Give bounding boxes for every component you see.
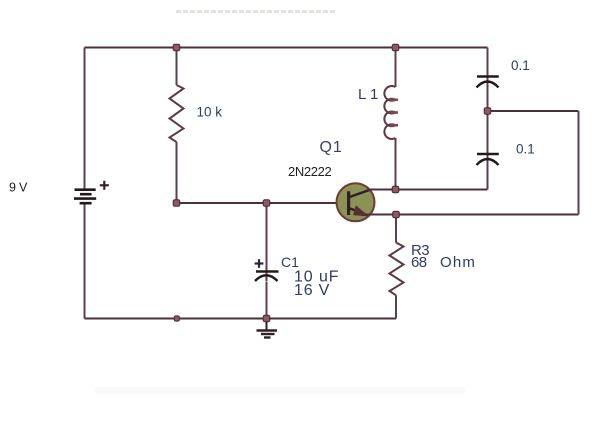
wire R3 top lead: [395, 215, 397, 243]
wire base rail: [177, 202, 349, 204]
junction emitter R3: [393, 211, 400, 218]
wire feedback top: [488, 110, 579, 112]
resistor R3: [390, 243, 404, 296]
junction base C1: [263, 200, 270, 207]
junction caps mid: [484, 108, 491, 115]
svg-text:0.1: 0.1: [511, 58, 530, 73]
inductor L1: [384, 86, 398, 139]
wire bottom rail: [85, 318, 397, 320]
battery V1 9V: [74, 190, 96, 204]
ground: [257, 319, 278, 338]
junction collector L1: [392, 186, 399, 193]
svg-text:Q1: Q1: [320, 139, 343, 156]
svg-text:68: 68: [411, 254, 427, 271]
wire collector rail: [367, 189, 488, 191]
junction bottom rail small: [174, 316, 179, 321]
junction top L1: [392, 44, 399, 51]
svg-text:L 1: L 1: [358, 86, 378, 103]
svg-text:Ohm: Ohm: [440, 254, 476, 271]
faint artifact band top: [176, 10, 336, 13]
capacitor C1 plus sign: [255, 259, 264, 268]
battery plus sign: [100, 181, 109, 190]
capacitor C3 0.1: [477, 154, 499, 165]
wire R3 bottom lead: [395, 295, 397, 318]
wire between caps lower: [487, 111, 489, 190]
wire 10k top lead: [176, 48, 178, 86]
wire feedback right: [578, 111, 580, 215]
wire 10k bottom lead: [176, 142, 178, 203]
svg-text:10 k: 10 k: [197, 105, 223, 120]
wire battery bottom lead: [84, 205, 86, 319]
wire cap branch top lead: [487, 48, 489, 112]
wire battery top lead: [84, 48, 86, 190]
transistor Q1: [337, 183, 375, 221]
svg-text:0.1: 0.1: [516, 142, 535, 157]
capacitor C1: [255, 272, 279, 282]
svg-text:9 V: 9 V: [9, 180, 28, 194]
wire L1 bottom lead: [395, 138, 397, 190]
capacitor C2 0.1: [477, 77, 499, 88]
junction top 10k: [173, 44, 180, 51]
faint artifact band bottom: [95, 387, 465, 394]
wire L1 top lead: [395, 48, 397, 88]
svg-text:2N2222: 2N2222: [288, 164, 332, 179]
wire C1 top lead: [266, 203, 268, 281]
svg-text:16 V: 16 V: [294, 282, 330, 299]
wire C1 bottom lead: [266, 282, 268, 319]
wire emitter rail: [367, 214, 579, 216]
junction base 10k: [173, 200, 180, 207]
wire top rail: [85, 47, 488, 49]
resistor R 10k: [170, 85, 184, 142]
junction bottom C1: [263, 315, 270, 322]
